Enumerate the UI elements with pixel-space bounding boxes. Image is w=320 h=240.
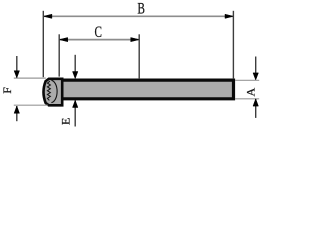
A arrow up [253, 99, 258, 106]
head face ellipse arc [51, 80, 57, 102]
F arrow up [14, 106, 19, 113]
arrow B left [43, 14, 52, 18]
E arrow up [73, 100, 78, 107]
E dimension line lower [74, 101, 76, 127]
svg-text:E: E [58, 118, 72, 125]
F arrow down [14, 71, 19, 78]
shank (shaft) of mounted point [64, 80, 234, 99]
extension line C right [138, 34, 140, 79]
A extension line bottom [235, 98, 259, 100]
arrow C left [59, 38, 67, 42]
arrow B right [225, 14, 233, 18]
arrow C right [131, 38, 140, 42]
F dimension line lower [16, 106, 18, 121]
extension line B right [232, 11, 234, 79]
dimension line C [59, 39, 139, 41]
A dimension line lower [255, 99, 257, 118]
svg-text:B: B [137, 0, 145, 17]
svg-text:C: C [95, 23, 103, 40]
A arrow down [253, 73, 258, 80]
abrasive zigzag on head face [47, 81, 50, 100]
E dimension line upper [74, 55, 76, 72]
extension line B left [42, 11, 44, 77]
A dimension line upper [255, 57, 257, 74]
F dimension line upper [16, 56, 18, 77]
F extension line bottom [14, 104, 48, 106]
E arrow down [73, 72, 78, 79]
dimension line B (overall length) [44, 15, 234, 17]
F extension line top [14, 77, 46, 79]
extension line C left [58, 34, 60, 76]
shank outline top/right/bottom [64, 80, 234, 99]
svg-text:A: A [243, 88, 257, 97]
A extension line top [235, 79, 259, 81]
abrasive head [44, 79, 63, 106]
svg-text:F: F [0, 87, 14, 94]
